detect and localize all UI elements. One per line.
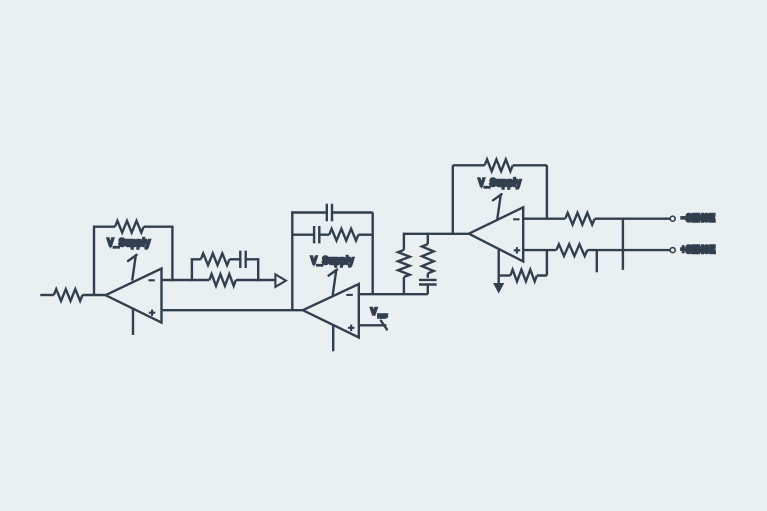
svg-text:REF: REF <box>378 314 387 320</box>
terminal node -SENSE <box>670 216 675 221</box>
wire branch L bottom <box>403 277 405 294</box>
resistor R4 gain <box>510 270 537 282</box>
wire U2 feedback top rail left <box>291 211 327 213</box>
wire U3 feedback up <box>94 227 115 296</box>
resistor R10 U3 feedback <box>115 221 144 233</box>
svg-text:V_Supply: V_Supply <box>311 255 354 267</box>
VREF arrow barb <box>381 321 387 330</box>
wire C2 to R7 <box>319 233 329 235</box>
resistor R1 U1 feedback <box>485 159 513 171</box>
wire output lead left <box>40 294 54 296</box>
wire R3 to +SENSE terminal <box>587 249 670 251</box>
wire plus input to gain resistor <box>537 250 547 275</box>
resistor R11 series <box>209 274 236 286</box>
svg-text:+SENSE: +SENSE <box>681 244 716 256</box>
wire rail2 left <box>292 233 314 235</box>
wire C4 to branch down <box>246 258 259 281</box>
op-amp U3 V_Supply arrow <box>128 255 137 280</box>
resistor R6 <box>422 244 434 273</box>
wire R11 to signal arrow <box>236 279 276 281</box>
wire R7 to right vertical <box>358 233 372 235</box>
capacitor stub from -SENSE line <box>622 219 624 270</box>
wire branch L top <box>403 233 405 250</box>
capacitor C2 feedback <box>314 226 319 243</box>
wire R9 to U3 output node <box>83 294 106 296</box>
ground arrow <box>494 284 503 293</box>
resistor R2 minus sense series <box>565 213 595 225</box>
capacitor stub from +SENSE line <box>596 250 598 272</box>
wire C3 to bottom rail <box>427 285 429 295</box>
wire U1 minus input line <box>523 217 565 219</box>
wire parallel branch up <box>192 259 201 281</box>
wire U1 output rail <box>404 233 469 235</box>
capacitor C3 <box>419 280 437 285</box>
svg-text:V_Supply: V_Supply <box>107 237 150 249</box>
wire U3 minus input line <box>162 279 210 281</box>
wire U2 output to U3 plus input <box>162 309 303 311</box>
wire U2 feedback left vertical <box>291 213 293 311</box>
wire U3 feedback to minus input <box>144 227 173 282</box>
op-amp U1 <box>469 207 523 261</box>
wire U1 negative supply to ground <box>498 248 500 284</box>
wire U2 plus input VREF lead <box>359 324 387 326</box>
signal flow arrow into stage 2 <box>275 274 286 287</box>
capacitor C1 feedback <box>327 204 332 221</box>
op-amp U1 plus pin label <box>514 247 521 254</box>
op-amp U2 negative supply stub <box>332 325 334 352</box>
svg-text:−SENSE: −SENSE <box>681 212 715 224</box>
wire C1 to right vertical <box>332 213 373 295</box>
wire U2 minus input line / bottom rail <box>359 293 428 295</box>
wire U1 feedback up <box>453 165 485 234</box>
resistor R12 parallel branch <box>201 253 230 265</box>
op-amp U2 <box>303 284 359 337</box>
wire U1 plus input line <box>523 249 556 251</box>
wire R1 to minus input <box>513 165 547 218</box>
resistor R9 output series <box>54 289 83 301</box>
wire R6 to C3 <box>427 273 429 277</box>
op-amp U2 plus pin label <box>348 325 355 332</box>
op-amp U3 plus pin label <box>149 310 156 317</box>
op-amp U3 minus pin label <box>148 279 155 281</box>
wire R12 to C4 <box>230 258 241 260</box>
wire R2 to -SENSE terminal <box>595 217 670 219</box>
terminal node +SENSE <box>670 248 675 253</box>
op-amp U2 V_Supply arrow <box>329 270 338 295</box>
resistor R5 <box>398 250 410 277</box>
svg-text:V: V <box>371 307 377 317</box>
capacitor C4 <box>240 251 245 268</box>
resistor R7 feedback <box>329 229 358 241</box>
svg-text:V_Supply: V_Supply <box>478 177 521 189</box>
op-amp U1 minus pin label <box>513 218 520 220</box>
op-amp U1 V_Supply arrow <box>493 194 502 219</box>
op-amp U2 minus pin label <box>346 294 353 296</box>
wire R4 to ground line <box>499 274 511 276</box>
resistor R3 plus sense series <box>556 244 587 256</box>
op-amp U3 negative supply stub <box>132 309 134 335</box>
op-amp U3 <box>106 269 162 323</box>
wire branch R top <box>427 233 429 245</box>
